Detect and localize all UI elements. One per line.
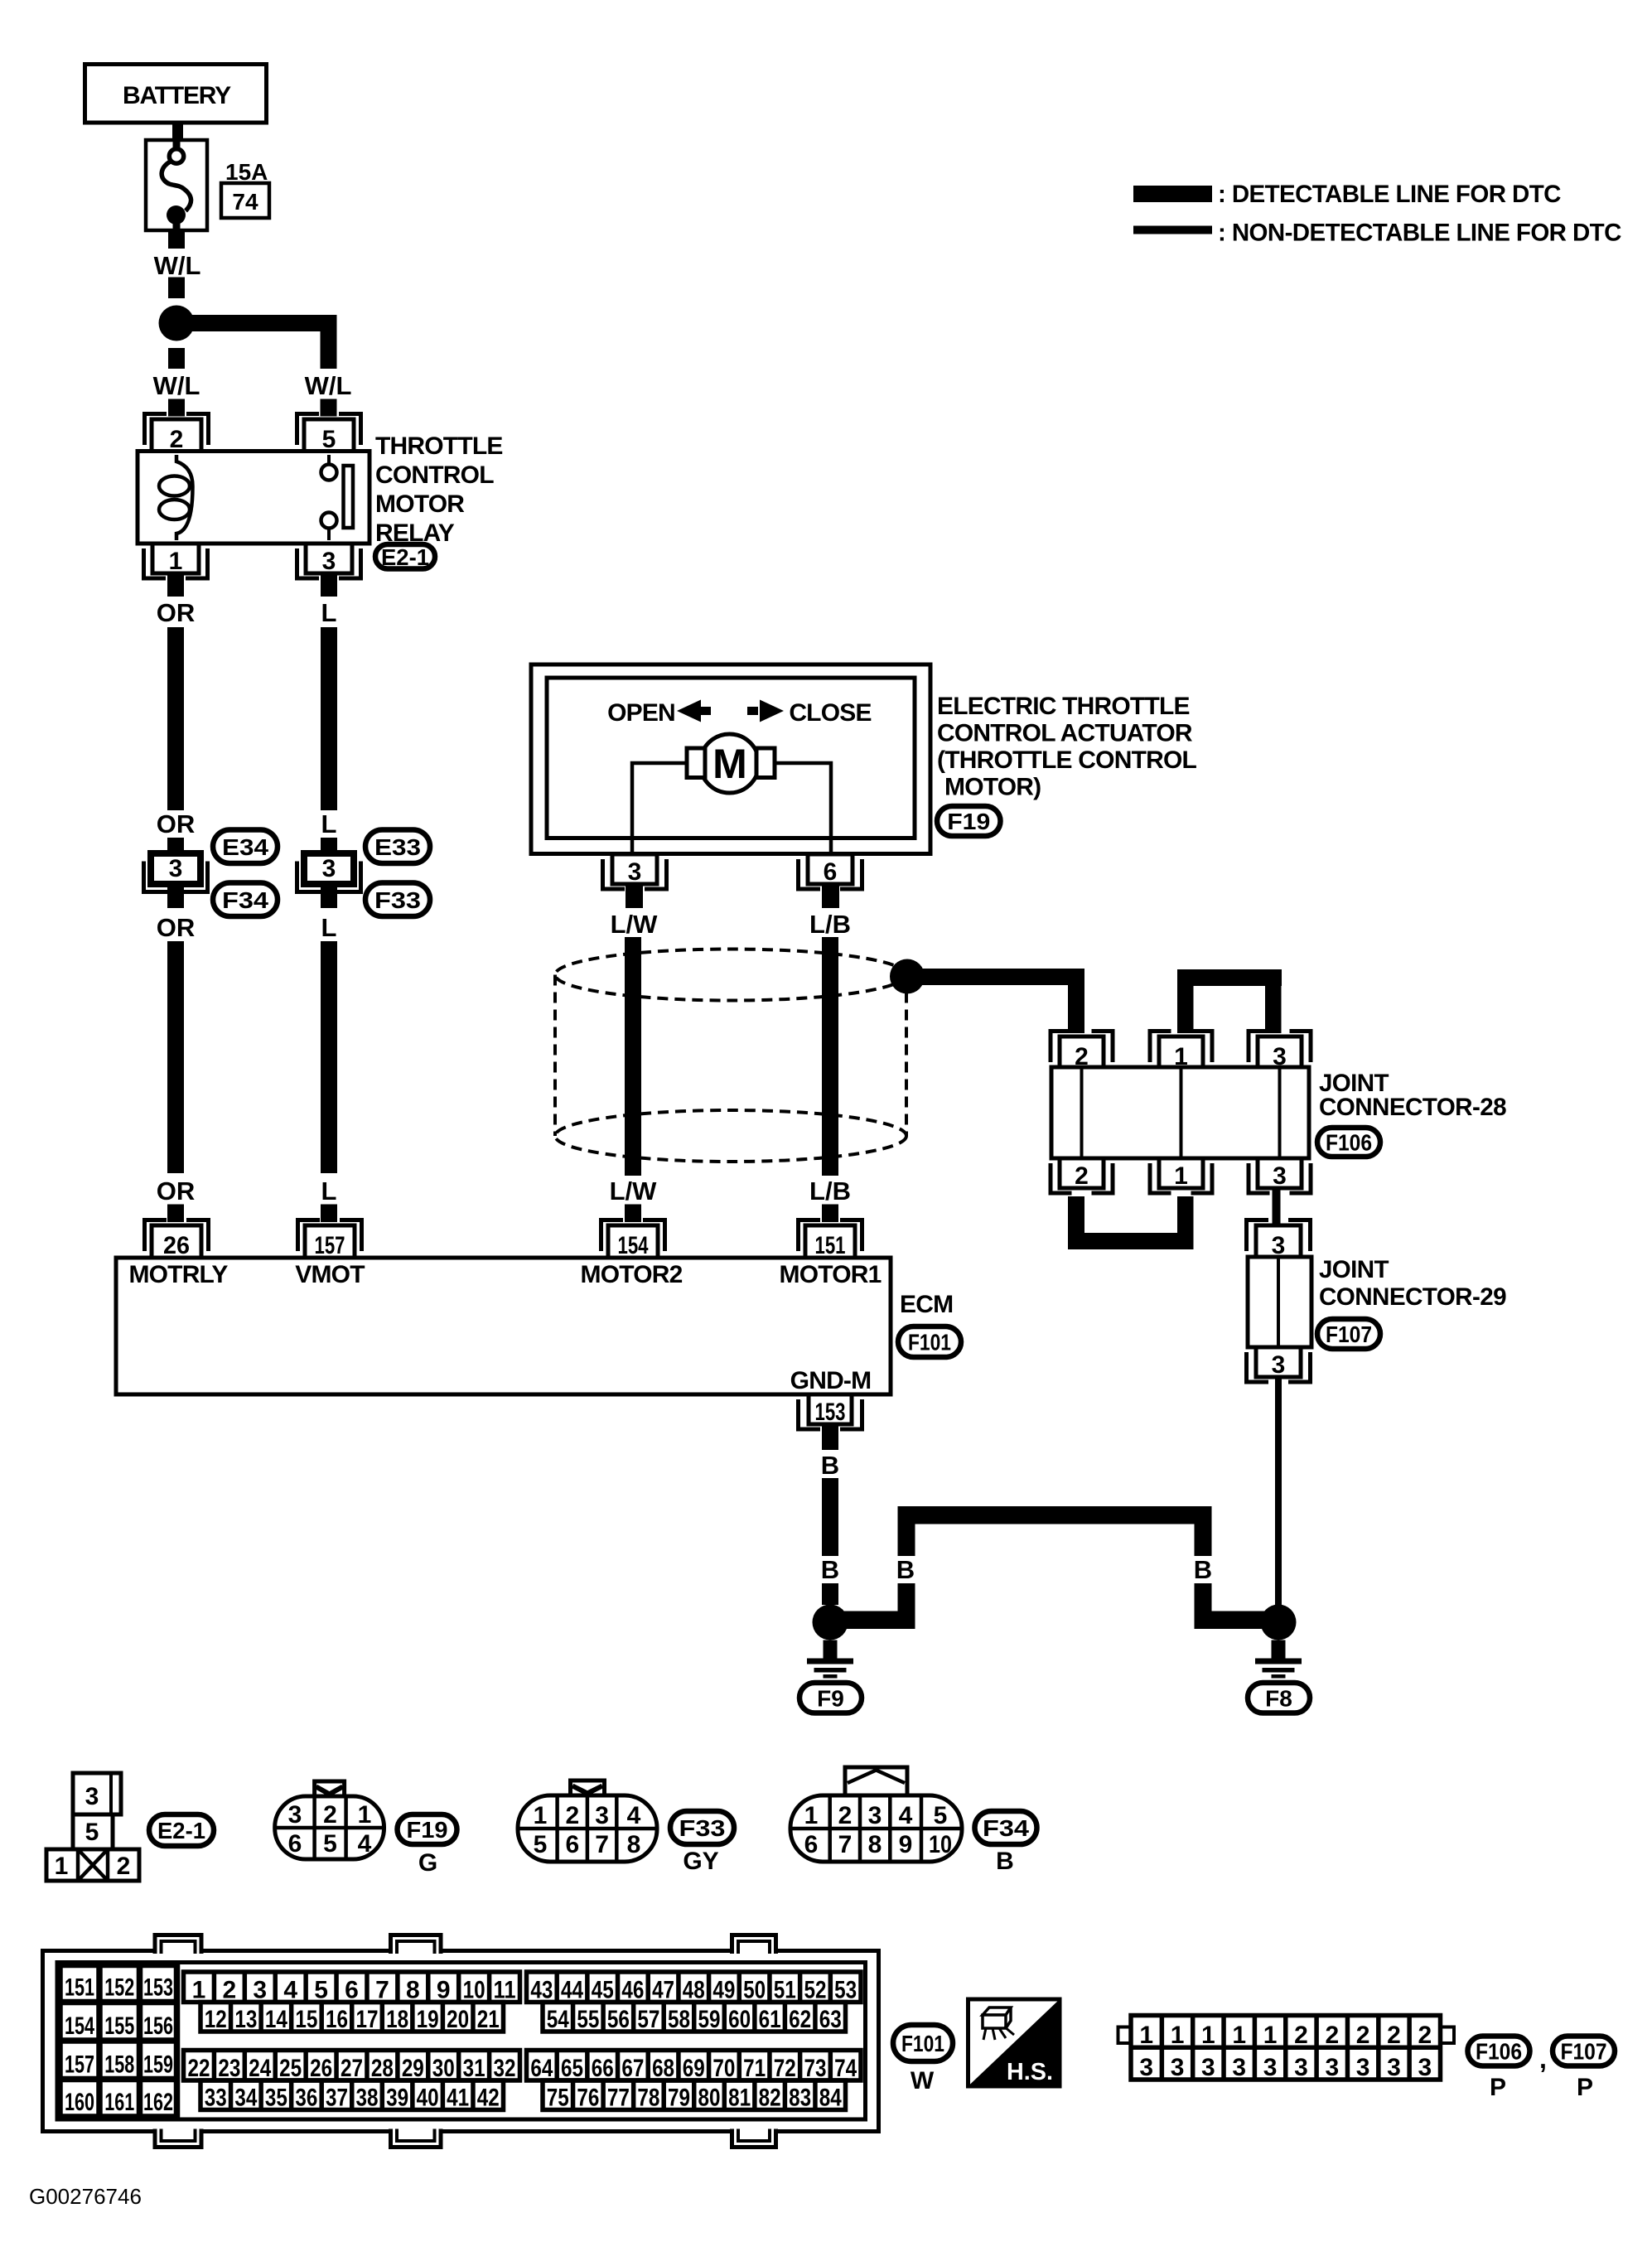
svg-text:23: 23 <box>218 2055 240 2082</box>
svg-text:GY: GY <box>683 1848 718 1875</box>
svg-text:32: 32 <box>494 2055 516 2082</box>
svg-text:E2-1: E2-1 <box>157 1818 205 1843</box>
svg-text:61: 61 <box>759 2006 781 2033</box>
svg-text:10: 10 <box>463 1977 485 2004</box>
svg-text:OR: OR <box>157 913 196 942</box>
svg-text:158: 158 <box>104 2051 134 2079</box>
svg-text:1: 1 <box>1139 2022 1153 2049</box>
svg-text:B: B <box>821 1451 839 1480</box>
svg-text:F107: F107 <box>1561 2039 1607 2065</box>
svg-text:P: P <box>1490 2074 1506 2101</box>
actuator pin 6 <box>799 859 821 889</box>
svg-text:F33: F33 <box>374 887 421 913</box>
pass-through connector pin 3 (E34/F34) <box>151 853 200 884</box>
svg-text:8: 8 <box>406 1977 420 2004</box>
svg-text:28: 28 <box>371 2055 394 2082</box>
svg-text:74: 74 <box>232 189 258 215</box>
svg-text:CONNECTOR-28: CONNECTOR-28 <box>1319 1094 1506 1121</box>
svg-text:70: 70 <box>712 2055 735 2082</box>
joint connector F106 pin 2 bottom <box>1051 1163 1072 1193</box>
joint connector F106 pin 3 bottom <box>1249 1163 1270 1193</box>
svg-text:56: 56 <box>607 2006 630 2033</box>
svg-text:ELECTRIC THROTTLE: ELECTRIC THROTTLE <box>937 693 1190 720</box>
arrow close <box>760 700 784 722</box>
svg-text:46: 46 <box>621 1977 644 2004</box>
relay contact <box>327 455 331 464</box>
svg-text:5: 5 <box>85 1819 99 1846</box>
svg-text:60: 60 <box>728 2006 751 2033</box>
ECM pin 153 <box>799 1399 821 1429</box>
svg-text:20: 20 <box>447 2006 469 2033</box>
svg-text:73: 73 <box>804 2055 826 2082</box>
relay coil <box>176 455 193 540</box>
connector view ref F106 <box>1468 2037 1530 2066</box>
svg-text:2: 2 <box>223 1977 237 2004</box>
svg-text:55: 55 <box>577 2006 599 2033</box>
connector ref E2-1 <box>375 544 435 569</box>
svg-text:1: 1 <box>55 1853 69 1880</box>
svg-text:76: 76 <box>577 2085 599 2112</box>
svg-text:31: 31 <box>463 2055 485 2082</box>
svg-text:2: 2 <box>323 1801 337 1829</box>
connector ref F101 <box>898 1326 961 1357</box>
svg-text:GND-M: GND-M <box>790 1367 872 1394</box>
svg-text:6: 6 <box>565 1831 579 1858</box>
wire L/B through shield to ECM pin 151 <box>822 937 838 1176</box>
wire W/L branch junction to relay pin 5 <box>176 315 336 331</box>
svg-text:H.S.: H.S. <box>1007 2059 1053 2085</box>
svg-text:83: 83 <box>789 2085 811 2112</box>
svg-text:27: 27 <box>341 2055 363 2082</box>
svg-text:156: 156 <box>143 2012 173 2040</box>
ground ref F8 <box>1248 1683 1310 1713</box>
svg-text:160: 160 <box>65 2089 94 2116</box>
svg-text:MOTOR2: MOTOR2 <box>581 1261 683 1288</box>
svg-text:MOTOR: MOTOR <box>375 490 465 518</box>
svg-text:59: 59 <box>698 2006 721 2033</box>
svg-text:81: 81 <box>728 2085 751 2112</box>
svg-text:F101: F101 <box>901 2031 944 2056</box>
ground symbol F8 <box>1272 1640 1286 1659</box>
relay pin 2 <box>145 414 167 446</box>
svg-text:F107: F107 <box>1326 1321 1372 1347</box>
shield (dashed cylinder) <box>555 949 906 1001</box>
ECM pin 151 <box>799 1220 821 1252</box>
connector ref F34 <box>213 883 278 917</box>
svg-text:JOINT: JOINT <box>1319 1256 1389 1283</box>
svg-text:B: B <box>996 1848 1014 1875</box>
svg-text:24: 24 <box>249 2055 271 2082</box>
wire joint connector F106 pin2-bottom to pin1-bottom <box>1068 1196 1084 1249</box>
svg-text:84: 84 <box>819 2085 842 2112</box>
svg-text:13: 13 <box>234 2006 257 2033</box>
svg-text:1: 1 <box>1171 2022 1185 2049</box>
svg-text:68: 68 <box>652 2055 674 2082</box>
svg-text:2: 2 <box>565 1802 579 1829</box>
svg-text:25: 25 <box>279 2055 302 2082</box>
svg-text:4: 4 <box>283 1977 297 2004</box>
wire L/W through shield to ECM pin 154 <box>625 937 641 1176</box>
svg-text:41: 41 <box>447 2085 469 2112</box>
ground junction node F8 <box>1261 1605 1297 1640</box>
svg-text:14: 14 <box>265 2006 287 2033</box>
svg-text:F19: F19 <box>407 1817 448 1843</box>
wire motor to actuator pin 3 <box>632 763 690 854</box>
svg-text:F34: F34 <box>222 887 268 913</box>
svg-text:MOTOR1: MOTOR1 <box>780 1261 882 1288</box>
svg-text:7: 7 <box>375 1977 389 2004</box>
svg-text:62: 62 <box>789 2006 811 2033</box>
svg-text:38: 38 <box>356 2085 379 2112</box>
svg-text:26: 26 <box>163 1232 190 1259</box>
ground symbol F9 <box>824 1640 838 1659</box>
svg-text:162: 162 <box>143 2089 173 2116</box>
joint connector-28 F106 body <box>1051 1067 1309 1158</box>
svg-text:ECM: ECM <box>900 1291 953 1318</box>
svg-text:2: 2 <box>1075 1162 1089 1190</box>
wire B ECM pin153 to ground junction F9 <box>822 1424 838 1450</box>
connector ref F107 <box>1317 1319 1380 1349</box>
svg-text:1: 1 <box>534 1802 548 1829</box>
svg-text:50: 50 <box>743 1977 766 2004</box>
svg-text:66: 66 <box>592 2055 614 2082</box>
svg-text:8: 8 <box>627 1831 641 1858</box>
svg-text:154: 154 <box>618 1232 649 1259</box>
svg-text:1: 1 <box>1263 2022 1278 2049</box>
wire joint connector F106 pin1-top to pin3-top <box>1177 969 1282 986</box>
svg-text:3: 3 <box>322 855 336 882</box>
shield junction node <box>890 959 925 994</box>
svg-text:VMOT: VMOT <box>295 1261 365 1288</box>
svg-text:1: 1 <box>1201 2022 1215 2049</box>
connector view ref F34 <box>975 1811 1037 1844</box>
svg-text:1: 1 <box>169 548 183 575</box>
svg-text:F101: F101 <box>908 1330 951 1355</box>
svg-text:F106: F106 <box>1326 1130 1372 1156</box>
connector ref E34 <box>213 830 278 864</box>
svg-text:15A: 15A <box>225 159 268 185</box>
svg-text:L/W: L/W <box>611 910 659 939</box>
svg-text:OR: OR <box>157 598 196 627</box>
svg-text:72: 72 <box>774 2055 796 2082</box>
svg-text:: NON-DETECTABLE LINE FOR DTC: : NON-DETECTABLE LINE FOR DTC <box>1218 220 1621 247</box>
svg-text:161: 161 <box>104 2089 134 2116</box>
svg-text:9: 9 <box>899 1831 913 1858</box>
connector view E2-1 <box>73 1773 121 1814</box>
fuse 15A (no. 74) <box>146 140 207 230</box>
relay pin 3 <box>297 548 320 578</box>
svg-text:63: 63 <box>819 2006 842 2033</box>
svg-text:51: 51 <box>774 1977 796 2004</box>
svg-text:33: 33 <box>205 2085 227 2112</box>
svg-text:2: 2 <box>1356 2022 1370 2049</box>
svg-text:47: 47 <box>652 1977 674 2004</box>
svg-text:3: 3 <box>1356 2054 1370 2081</box>
svg-text:L: L <box>321 913 337 942</box>
svg-text:OPEN: OPEN <box>607 699 675 727</box>
svg-text:3: 3 <box>1273 1162 1287 1190</box>
svg-text:1: 1 <box>192 1977 206 2004</box>
svg-text:5: 5 <box>314 1977 328 2004</box>
svg-text:L/B: L/B <box>809 910 851 939</box>
svg-text:57: 57 <box>637 2006 659 2033</box>
svg-text:,: , <box>1539 2044 1547 2074</box>
joint connector F106 pin 3 top <box>1249 1032 1270 1063</box>
relay pin 1 <box>144 548 167 578</box>
svg-text:49: 49 <box>712 1977 735 2004</box>
svg-text:154: 154 <box>65 2012 94 2040</box>
connector ref E33 <box>365 830 430 864</box>
connector view F101 pin rows 1-21 <box>184 1972 520 2003</box>
svg-text:BATTERY: BATTERY <box>123 82 231 109</box>
svg-text:W/L: W/L <box>305 371 352 400</box>
svg-text:THROTTLE: THROTTLE <box>375 432 503 460</box>
svg-text:79: 79 <box>668 2085 690 2112</box>
connector view F101 pin rows 43-63 <box>527 1972 862 2003</box>
connector view F101 pin rows 64-84 <box>527 2051 862 2081</box>
svg-text:52: 52 <box>804 1977 826 2004</box>
svg-text:3: 3 <box>1272 1351 1286 1379</box>
svg-text:(THROTTLE CONTROL: (THROTTLE CONTROL <box>937 746 1196 774</box>
svg-text:3: 3 <box>628 858 642 886</box>
svg-text:L: L <box>321 1176 337 1205</box>
svg-text:44: 44 <box>561 1977 583 2004</box>
svg-text:M: M <box>712 741 747 787</box>
svg-text:151: 151 <box>815 1232 846 1259</box>
svg-text:2: 2 <box>117 1853 131 1880</box>
svg-text:67: 67 <box>621 2055 644 2082</box>
H.S. emblem <box>968 1999 1060 2086</box>
svg-text:W/L: W/L <box>153 371 200 400</box>
svg-text:53: 53 <box>834 1977 857 2004</box>
svg-text:3: 3 <box>253 1977 267 2004</box>
connector view F19 <box>315 1781 345 1798</box>
svg-text:3: 3 <box>595 1802 609 1829</box>
svg-text:6: 6 <box>824 858 838 886</box>
wire W/L fuse to junction <box>168 232 185 249</box>
wire motor to actuator pin 6 <box>771 763 831 854</box>
svg-text:MOTOR): MOTOR) <box>944 774 1041 801</box>
svg-text:B: B <box>1194 1555 1212 1584</box>
svg-text:77: 77 <box>607 2085 630 2112</box>
wire L/B actuator pin6 to shield <box>822 883 839 908</box>
svg-text:9: 9 <box>437 1977 451 2004</box>
svg-text:L: L <box>321 598 337 627</box>
svg-text:F33: F33 <box>679 1815 726 1841</box>
connector view F34 <box>845 1767 907 1795</box>
throttle control motor M <box>700 734 759 793</box>
joint connector F107 pin 3 bottom <box>1247 1352 1269 1382</box>
svg-text:G: G <box>418 1849 437 1877</box>
svg-text:82: 82 <box>759 2085 781 2112</box>
arrow open <box>677 700 701 722</box>
svg-text:B: B <box>821 1555 839 1584</box>
svg-text:OR: OR <box>157 1176 196 1205</box>
fuse number 74 box <box>221 183 269 218</box>
svg-text:40: 40 <box>417 2085 439 2112</box>
svg-text:2: 2 <box>1325 2022 1339 2049</box>
legend non-detectable line for DTC <box>1133 226 1212 234</box>
connector view F106/F107 strip <box>1118 2027 1132 2044</box>
svg-text:39: 39 <box>386 2085 408 2112</box>
svg-text:4: 4 <box>627 1802 641 1829</box>
svg-text:8: 8 <box>868 1831 882 1858</box>
svg-text:7: 7 <box>838 1831 853 1858</box>
svg-text:48: 48 <box>683 1977 705 2004</box>
svg-text:4: 4 <box>899 1802 913 1829</box>
svg-text:37: 37 <box>326 2085 348 2112</box>
connector view ref F101 <box>893 2025 953 2061</box>
svg-text:45: 45 <box>592 1977 614 2004</box>
svg-text:71: 71 <box>743 2055 766 2082</box>
ground ref F9 <box>799 1683 862 1713</box>
throttle control motor relay K1 <box>138 452 370 544</box>
svg-text:54: 54 <box>547 2006 569 2033</box>
svg-text:F106: F106 <box>1476 2039 1522 2065</box>
svg-text:3: 3 <box>1201 2054 1215 2081</box>
svg-text:E34: E34 <box>222 834 268 860</box>
connector view F101 pin grid 151-162 <box>60 1965 177 2118</box>
ECM pin 154 <box>601 1220 624 1252</box>
wire shield to joint connector F106 pin 2 <box>907 969 1076 985</box>
svg-text:7: 7 <box>595 1831 609 1858</box>
connector ref F33 <box>365 883 430 917</box>
svg-text:80: 80 <box>698 2085 721 2112</box>
svg-text:3: 3 <box>169 855 183 882</box>
svg-text:5: 5 <box>934 1802 948 1829</box>
svg-text:3: 3 <box>288 1801 302 1829</box>
connector ref F106 <box>1317 1128 1380 1157</box>
svg-text:3: 3 <box>322 548 336 575</box>
svg-text:3: 3 <box>1418 2054 1432 2081</box>
svg-text:29: 29 <box>402 2055 424 2082</box>
svg-text:F9: F9 <box>817 1685 844 1711</box>
electric throttle control actuator F19 outer box <box>531 664 930 854</box>
connector view ref F19 <box>398 1814 457 1844</box>
battery <box>85 65 267 123</box>
svg-text:34: 34 <box>234 2085 257 2112</box>
svg-text:64: 64 <box>530 2055 553 2082</box>
svg-text:15: 15 <box>295 2006 317 2033</box>
connector view ref F33 <box>670 1811 734 1844</box>
svg-text:151: 151 <box>65 1974 94 2002</box>
joint connector F106 pin 1 top <box>1150 1032 1171 1063</box>
svg-text:78: 78 <box>637 2085 659 2112</box>
connector view ref F107 <box>1553 2037 1615 2066</box>
svg-text:3: 3 <box>1232 2054 1246 2081</box>
svg-text:6: 6 <box>288 1830 302 1858</box>
svg-text:: DETECTABLE LINE FOR DTC: : DETECTABLE LINE FOR DTC <box>1218 181 1561 208</box>
svg-text:17: 17 <box>356 2006 379 2033</box>
svg-text:43: 43 <box>530 1977 553 2004</box>
junction node W/L <box>159 306 195 341</box>
svg-text:L/B: L/B <box>809 1176 851 1205</box>
svg-text:1: 1 <box>1174 1162 1188 1190</box>
svg-text:10: 10 <box>929 1831 952 1858</box>
svg-text:L/W: L/W <box>610 1176 658 1205</box>
joint connector-29 F107 body <box>1248 1257 1311 1347</box>
joint connector F107 pin 3 top <box>1247 1220 1269 1252</box>
svg-text:152: 152 <box>104 1974 134 2002</box>
svg-text:CONTROL: CONTROL <box>375 461 494 489</box>
svg-text:F19: F19 <box>947 809 990 834</box>
svg-text:W: W <box>911 2067 935 2094</box>
svg-text:2: 2 <box>838 1802 853 1829</box>
wire OR relay pin1 to connector E34 <box>167 573 184 597</box>
svg-text:42: 42 <box>477 2085 500 2112</box>
svg-text:E33: E33 <box>374 834 421 860</box>
connector view F101 (ECM) body <box>43 1951 879 2132</box>
ECM pin 26 <box>145 1220 167 1252</box>
svg-text:22: 22 <box>187 2055 210 2082</box>
svg-text:2: 2 <box>1294 2022 1308 2049</box>
svg-text:155: 155 <box>104 2012 134 2040</box>
svg-text:153: 153 <box>815 1399 846 1426</box>
relay pin 5 <box>297 414 320 446</box>
svg-text:F8: F8 <box>1265 1685 1292 1711</box>
connector view ref E2-1 <box>149 1814 214 1846</box>
svg-text:F34: F34 <box>983 1815 1029 1841</box>
svg-text:157: 157 <box>65 2051 94 2079</box>
svg-text:3: 3 <box>85 1783 99 1810</box>
svg-text:3: 3 <box>1139 2054 1153 2081</box>
svg-text:2: 2 <box>1418 2022 1432 2049</box>
svg-text:MOTRLY: MOTRLY <box>128 1261 228 1288</box>
joint connector F106 pin 2 top <box>1051 1032 1072 1063</box>
svg-text:11: 11 <box>494 1977 516 2004</box>
svg-text:6: 6 <box>804 1831 819 1858</box>
svg-text:58: 58 <box>668 2006 690 2033</box>
svg-text:6: 6 <box>345 1977 359 2004</box>
legend detectable line for DTC <box>1133 186 1212 202</box>
svg-text:CLOSE: CLOSE <box>789 699 871 727</box>
svg-text:36: 36 <box>295 2085 317 2112</box>
svg-text:3: 3 <box>1263 2054 1278 2081</box>
svg-text:3: 3 <box>1387 2054 1401 2081</box>
svg-text:75: 75 <box>547 2085 569 2112</box>
svg-text:3: 3 <box>1325 2054 1339 2081</box>
svg-text:1: 1 <box>804 1802 819 1829</box>
wire F107 to ground junction F8 <box>1275 1377 1282 1607</box>
wire W/L junction to relay pin 2 <box>168 348 185 369</box>
wire battery to fuse <box>172 123 183 139</box>
ECM F101 box <box>116 1258 891 1394</box>
connector view F33 <box>571 1780 605 1796</box>
svg-text:19: 19 <box>417 2006 439 2033</box>
svg-text:L: L <box>321 809 337 838</box>
svg-text:3: 3 <box>868 1802 882 1829</box>
pass-through connector pin 3 (E33/F33) <box>304 853 354 884</box>
svg-text:G00276746: G00276746 <box>29 2184 142 2209</box>
svg-text:3: 3 <box>1171 2054 1185 2081</box>
svg-text:W/L: W/L <box>154 251 201 280</box>
svg-text:21: 21 <box>477 2006 500 2033</box>
svg-text:12: 12 <box>205 2006 227 2033</box>
svg-text:30: 30 <box>432 2055 455 2082</box>
connector view F101 pin rows 22-42 <box>184 2051 520 2081</box>
svg-text:69: 69 <box>683 2055 705 2082</box>
connector ref F19 <box>937 806 1001 836</box>
svg-text:65: 65 <box>561 2055 583 2082</box>
svg-text:OR: OR <box>157 809 196 838</box>
svg-text:3: 3 <box>1294 2054 1308 2081</box>
svg-text:159: 159 <box>143 2051 173 2079</box>
wire L relay pin3 to connector E33 <box>321 573 337 597</box>
svg-text:CONTROL ACTUATOR: CONTROL ACTUATOR <box>937 720 1193 747</box>
svg-text:16: 16 <box>326 2006 348 2033</box>
wire L/W actuator pin3 to shield <box>626 883 643 908</box>
svg-text:18: 18 <box>386 2006 408 2033</box>
